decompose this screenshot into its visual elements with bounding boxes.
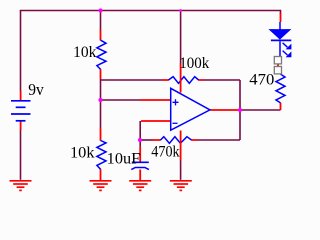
svg-text:470k: 470k <box>151 144 180 161</box>
svg-text:100k: 100k <box>179 55 209 72</box>
svg-text:10k: 10k <box>70 144 95 161</box>
svg-text:10k: 10k <box>73 44 97 61</box>
svg-text:470: 470 <box>249 72 274 89</box>
svg-text:9v: 9v <box>28 80 44 99</box>
svg-text:10uF: 10uF <box>107 150 141 167</box>
